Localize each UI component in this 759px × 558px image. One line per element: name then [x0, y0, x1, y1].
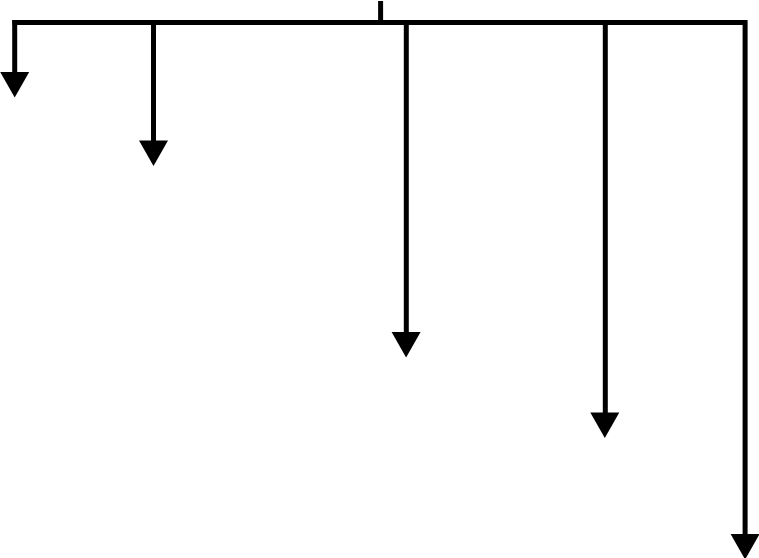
wire: top horizontal bus line	[12, 20, 747, 25]
arrow 3 (center)	[392, 20, 421, 358]
arrow 5 (rightmost, longest)	[731, 20, 759, 558]
arrow 4	[590, 20, 619, 438]
node: center tick mark on top bus	[378, 1, 383, 25]
arrow 2	[139, 20, 168, 166]
arrow 1 (leftmost, short)	[0, 20, 29, 98]
